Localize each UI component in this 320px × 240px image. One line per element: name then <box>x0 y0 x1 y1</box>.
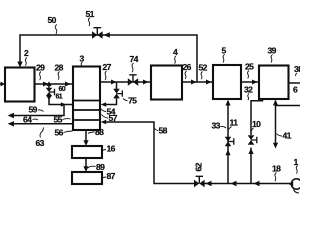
valve 10 <box>248 135 257 145</box>
valve 61 branch wire <box>48 84 50 88</box>
svg-text:74: 74 <box>130 54 139 64</box>
wire down from valve 61 into box3 port <box>47 96 52 101</box>
svg-text:59: 59 <box>29 105 38 115</box>
arrow into box 2 left <box>0 83 1 85</box>
svg-text:11: 11 <box>230 118 239 128</box>
box 5 <box>213 65 241 99</box>
svg-text:55: 55 <box>54 115 63 125</box>
box 3 <box>73 67 100 131</box>
pump 1 <box>291 179 301 189</box>
valve 60a <box>225 137 234 147</box>
box3 internal line <box>73 100 100 102</box>
box 2 <box>5 68 35 102</box>
svg-text:63: 63 <box>36 138 45 148</box>
box3 internal line <box>73 119 100 121</box>
svg-text:62: 62 <box>194 162 204 171</box>
long arrow 63 <box>10 123 73 125</box>
wire into box 2 top <box>17 62 22 68</box>
wire box3 to box4 <box>100 81 151 83</box>
svg-text:41: 41 <box>283 131 292 141</box>
svg-text:87: 87 <box>107 171 116 181</box>
svg-text:89: 89 <box>96 162 105 172</box>
wire 26 box4 to box5 <box>182 81 213 83</box>
svg-text:50: 50 <box>48 15 57 25</box>
box 4 <box>151 66 182 100</box>
valve 51 <box>92 28 103 39</box>
valve 74 <box>128 75 138 86</box>
box A (16) <box>72 146 102 158</box>
svg-text:75: 75 <box>128 96 137 106</box>
wire valve10 up to box39 bottom <box>251 99 263 135</box>
valve 62 <box>194 176 205 187</box>
svg-text:38: 38 <box>294 64 300 74</box>
svg-text:39: 39 <box>268 46 277 56</box>
svg-text:25: 25 <box>245 62 254 72</box>
riser to box39 via valve 10 <box>250 148 252 184</box>
svg-text:64: 64 <box>23 115 32 125</box>
svg-text:28: 28 <box>55 63 64 73</box>
wire valve75 return into box3 <box>103 99 117 105</box>
wire 58 from box3 to bottom line <box>101 120 107 125</box>
wire 41 from box39 bottom <box>275 101 277 145</box>
svg-text:26: 26 <box>183 62 192 72</box>
box 39 <box>259 66 289 100</box>
wire bottom line <box>205 183 293 185</box>
svg-text:10: 10 <box>252 119 261 129</box>
wire 25 box5 to box39 <box>241 81 259 83</box>
svg-text:33: 33 <box>212 121 221 131</box>
valve 61 <box>46 88 55 96</box>
wire 38 out right <box>289 82 301 84</box>
valve 75 branch <box>116 82 118 89</box>
wire box A to box B <box>85 158 87 169</box>
wire top line 50 <box>20 35 197 82</box>
svg-text:60: 60 <box>59 86 66 93</box>
svg-text:29: 29 <box>36 63 45 73</box>
arrow left of flow on top line <box>104 32 110 37</box>
box B (87) <box>72 172 102 184</box>
node junction arrow up at branch <box>47 81 52 86</box>
svg-text:58: 58 <box>159 126 168 136</box>
svg-text:27: 27 <box>103 62 112 72</box>
svg-text:56: 56 <box>55 128 64 138</box>
long arrow 59/64 <box>10 105 64 116</box>
riser to box5 <box>227 101 229 184</box>
svg-text:61: 61 <box>56 94 63 101</box>
box3 internal line <box>73 109 100 111</box>
svg-text:52: 52 <box>199 63 208 73</box>
wire box3 bottom to box A <box>85 130 87 143</box>
valve 75 <box>113 89 122 99</box>
wire branch right at y105.5 <box>276 105 301 107</box>
svg-text:88: 88 <box>95 127 104 137</box>
wire box2 to box3 <box>35 83 74 85</box>
svg-text:16: 16 <box>107 144 116 154</box>
svg-text:32: 32 <box>244 85 253 95</box>
svg-text:51: 51 <box>86 9 95 19</box>
svg-text:18: 18 <box>272 164 281 174</box>
